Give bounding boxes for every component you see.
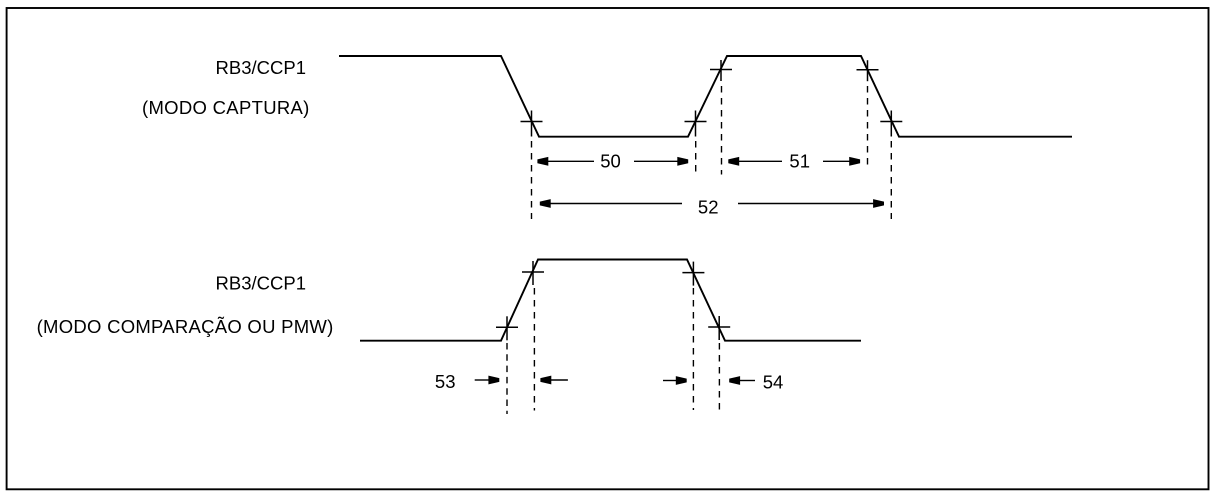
measurement cross on bottom rise upper threshold xyxy=(522,261,544,285)
dashed extension line at rise lower threshold xyxy=(695,141,697,173)
dashed extension line bottom rise lower threshold xyxy=(506,343,508,414)
measurement cross on second falling edge upper threshold xyxy=(857,60,879,81)
svg-text:RB3/CCP1: RB3/CCP1 xyxy=(216,57,306,78)
dimension 52 right arrow xyxy=(738,199,884,208)
svg-text:52: 52 xyxy=(698,197,719,218)
svg-text:53: 53 xyxy=(435,371,456,392)
dimension 54 left-pointing arrow xyxy=(729,376,755,385)
dimension 50 left arrow xyxy=(537,157,594,166)
dashed extension line bottom fall lower threshold xyxy=(718,343,720,410)
waveform RB3/CCP1 capture mode xyxy=(339,56,1072,137)
dimension 50 right arrow xyxy=(634,157,688,166)
svg-text:50: 50 xyxy=(600,151,621,172)
dashed extension line at rise upper threshold xyxy=(721,86,723,175)
dimension 53 right-pointing arrow xyxy=(475,376,500,385)
measurement cross on first falling edge (lower threshold) xyxy=(521,111,543,137)
dimension 51 right arrow xyxy=(823,157,860,166)
svg-text:RB3/CCP1: RB3/CCP1 xyxy=(216,273,306,294)
dimension 54 right-pointing arrow xyxy=(663,376,687,385)
svg-text:51: 51 xyxy=(789,151,810,172)
svg-text:(MODO CAPTURA): (MODO CAPTURA) xyxy=(142,97,310,118)
svg-text:(MODO COMPARAÇÃO OU PMW): (MODO COMPARAÇÃO OU PMW) xyxy=(37,316,334,337)
dashed extension line at first fall lower threshold xyxy=(531,141,533,219)
dashed extension line at second fall lower threshold xyxy=(890,141,892,219)
measurement cross on bottom rise lower threshold xyxy=(496,316,518,340)
measurement cross on bottom fall lower threshold xyxy=(708,316,730,340)
waveform RB3/CCP1 compare/PWM mode xyxy=(360,260,861,341)
measurement cross on rising edge lower threshold xyxy=(685,111,707,137)
measurement cross on bottom fall upper threshold xyxy=(682,262,704,286)
dashed extension line bottom rise upper threshold xyxy=(533,288,535,411)
svg-text:54: 54 xyxy=(763,372,784,393)
measurement cross on second falling edge lower threshold xyxy=(880,111,902,137)
measurement cross on rising edge upper threshold xyxy=(710,60,732,81)
dimension 52 left arrow xyxy=(540,199,682,208)
dimension 53 left-pointing arrow xyxy=(540,376,568,385)
dashed extension line bottom fall upper threshold xyxy=(692,288,694,410)
dashed extension line at second fall upper threshold xyxy=(867,86,869,166)
dimension 51 left arrow xyxy=(728,157,782,166)
